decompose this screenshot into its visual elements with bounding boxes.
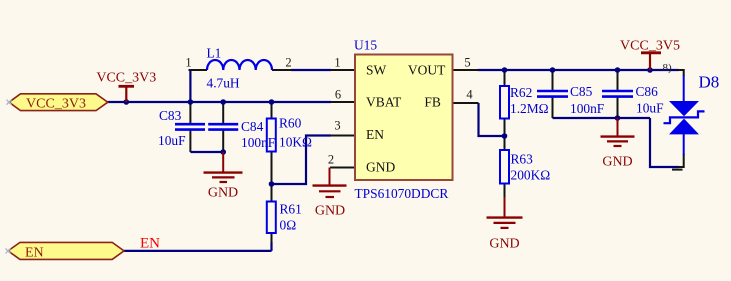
svg-text:R63: R63 [511, 152, 534, 167]
svg-text:VCC_3V3: VCC_3V3 [96, 71, 156, 86]
svg-text:10uF: 10uF [636, 101, 664, 116]
svg-text:GND: GND [366, 160, 395, 175]
svg-text:R60: R60 [279, 116, 302, 131]
svg-text:VBAT: VBAT [366, 94, 402, 109]
svg-text:1.2MΩ: 1.2MΩ [510, 101, 549, 116]
svg-text:C83: C83 [159, 108, 182, 123]
svg-text:100nF: 100nF [570, 101, 604, 116]
svg-text:C84: C84 [241, 119, 264, 134]
svg-text:D8: D8 [699, 73, 720, 92]
svg-text:6: 6 [335, 88, 341, 102]
svg-text:C85: C85 [570, 84, 593, 99]
svg-text:EN: EN [366, 127, 384, 142]
svg-text:R62: R62 [510, 85, 532, 100]
svg-text:100nF: 100nF [241, 135, 275, 150]
svg-text:0Ω: 0Ω [280, 218, 297, 233]
svg-text:R61: R61 [280, 202, 302, 217]
svg-text:5: 5 [464, 56, 470, 70]
svg-text:4.7uH: 4.7uH [207, 76, 240, 91]
svg-text:TPS61070DDCR: TPS61070DDCR [355, 186, 449, 201]
svg-text:200KΩ: 200KΩ [511, 168, 551, 183]
svg-text:L1: L1 [207, 46, 222, 61]
svg-text:GND: GND [315, 204, 345, 219]
svg-text:1: 1 [334, 56, 340, 70]
svg-text:FB: FB [424, 94, 441, 109]
svg-text:GND: GND [208, 186, 238, 201]
svg-text:3: 3 [334, 119, 340, 133]
svg-text:GND: GND [602, 155, 632, 170]
svg-text:EN: EN [25, 245, 44, 260]
svg-text:10KΩ: 10KΩ [279, 135, 312, 150]
svg-text:VOUT: VOUT [408, 62, 446, 77]
svg-text:C86: C86 [636, 84, 659, 99]
svg-text:SW: SW [366, 62, 387, 77]
svg-text:U15: U15 [354, 38, 377, 53]
svg-text:10uF: 10uF [158, 133, 186, 148]
svg-text:8): 8) [663, 62, 673, 74]
svg-text:EN: EN [140, 236, 160, 252]
svg-text:2: 2 [285, 56, 291, 70]
svg-text:4: 4 [466, 88, 473, 102]
svg-text:1: 1 [185, 56, 191, 70]
svg-text:GND: GND [489, 237, 519, 252]
svg-text:VCC_3V5: VCC_3V5 [620, 38, 680, 53]
svg-text:2: 2 [328, 153, 334, 167]
svg-text:VCC_3V3: VCC_3V3 [26, 96, 86, 111]
